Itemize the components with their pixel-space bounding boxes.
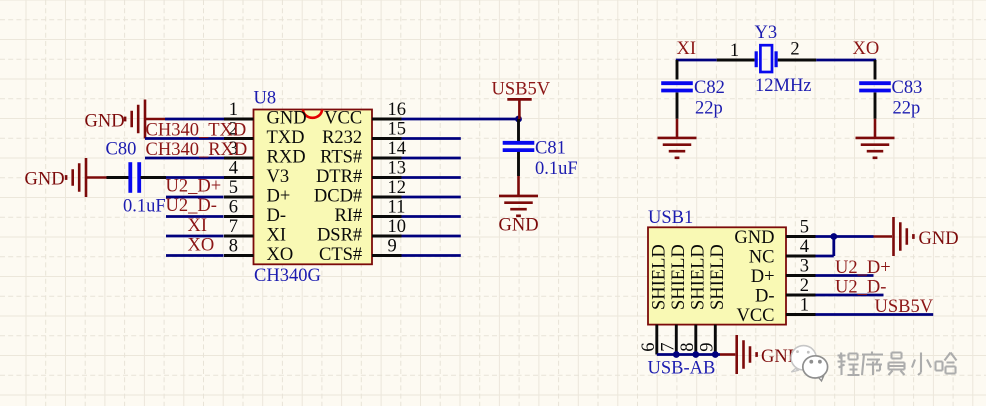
svg-text:DCD#: DCD# xyxy=(314,187,362,207)
svg-text:USB5V: USB5V xyxy=(875,297,934,317)
svg-text:CH340G: CH340G xyxy=(254,266,321,286)
svg-text:9: 9 xyxy=(388,237,397,257)
svg-text:USB5V: USB5V xyxy=(492,80,551,100)
svg-text:U2_D+: U2_D+ xyxy=(835,258,891,278)
svg-text:USB-AB: USB-AB xyxy=(648,359,716,379)
svg-text:U2_D-: U2_D- xyxy=(166,196,217,216)
svg-text:DSR#: DSR# xyxy=(317,226,362,246)
svg-text:XI: XI xyxy=(677,39,697,59)
svg-text:NC: NC xyxy=(749,248,775,268)
svg-text:3: 3 xyxy=(800,257,809,277)
svg-text:1: 1 xyxy=(229,100,238,120)
svg-text:XO: XO xyxy=(853,39,880,59)
svg-text:V3: V3 xyxy=(267,167,290,187)
svg-text:10: 10 xyxy=(388,217,407,237)
svg-text:D+: D+ xyxy=(751,267,775,287)
svg-text:XI: XI xyxy=(188,216,208,236)
svg-text:6: 6 xyxy=(639,343,659,352)
svg-text:C81: C81 xyxy=(535,139,566,159)
svg-text:U8: U8 xyxy=(254,88,277,108)
svg-text:XO: XO xyxy=(188,235,215,255)
svg-text:4: 4 xyxy=(229,159,238,179)
svg-text:Y3: Y3 xyxy=(755,23,778,43)
svg-text:RTS#: RTS# xyxy=(320,148,362,168)
svg-text:SHIELD: SHIELD xyxy=(689,244,709,310)
svg-text:DTR#: DTR# xyxy=(316,167,362,187)
svg-text:TXD: TXD xyxy=(267,128,305,148)
svg-text:CTS#: CTS# xyxy=(319,245,362,265)
svg-text:U2_D-: U2_D- xyxy=(835,277,886,297)
svg-text:5: 5 xyxy=(229,178,238,198)
svg-text:D-: D- xyxy=(755,287,775,307)
svg-text:22p: 22p xyxy=(893,99,921,119)
svg-text:XI: XI xyxy=(267,226,287,246)
svg-text:SHIELD: SHIELD xyxy=(708,244,728,310)
svg-text:U2_D+: U2_D+ xyxy=(166,176,222,196)
svg-text:8: 8 xyxy=(678,343,698,352)
svg-text:16: 16 xyxy=(388,100,407,120)
svg-text:7: 7 xyxy=(658,343,678,352)
svg-text:9: 9 xyxy=(697,343,717,352)
svg-text:SHIELD: SHIELD xyxy=(669,244,689,310)
svg-text:GND: GND xyxy=(85,112,125,132)
svg-text:GND: GND xyxy=(25,169,65,189)
svg-text:13: 13 xyxy=(388,159,407,179)
svg-text:4: 4 xyxy=(800,237,809,257)
svg-text:0.1uF: 0.1uF xyxy=(123,197,166,217)
svg-text:22p: 22p xyxy=(695,99,723,119)
svg-text:C83: C83 xyxy=(892,78,923,98)
svg-text:VCC: VCC xyxy=(736,306,774,326)
svg-text:C82: C82 xyxy=(694,78,725,98)
svg-text:RXD: RXD xyxy=(267,148,306,168)
svg-text:GND: GND xyxy=(734,228,774,248)
svg-text:RI#: RI# xyxy=(334,206,362,226)
svg-text:CH340_TXD: CH340_TXD xyxy=(146,120,247,140)
svg-text:12: 12 xyxy=(388,178,407,198)
svg-text:XO: XO xyxy=(267,245,294,265)
svg-text:D-: D- xyxy=(267,206,287,226)
svg-text:C80: C80 xyxy=(106,139,137,159)
svg-text:14: 14 xyxy=(388,139,407,159)
svg-text:2: 2 xyxy=(800,276,809,296)
svg-text:VCC: VCC xyxy=(324,109,362,129)
svg-text:15: 15 xyxy=(388,120,407,140)
svg-text:GND: GND xyxy=(919,229,959,249)
svg-text:D+: D+ xyxy=(267,187,291,207)
svg-text:11: 11 xyxy=(388,198,406,218)
svg-text:6: 6 xyxy=(229,198,238,218)
svg-text:2: 2 xyxy=(790,40,799,60)
svg-text:12MHz: 12MHz xyxy=(755,76,812,96)
svg-text:GND: GND xyxy=(267,109,307,129)
svg-text:8: 8 xyxy=(229,237,238,257)
svg-text:GND: GND xyxy=(499,216,539,236)
svg-text:R232: R232 xyxy=(322,128,362,148)
svg-text:5: 5 xyxy=(800,218,809,238)
svg-text:USB1: USB1 xyxy=(648,208,693,228)
svg-text:SHIELD: SHIELD xyxy=(650,244,670,310)
svg-text:0.1uF: 0.1uF xyxy=(535,159,578,179)
svg-text:7: 7 xyxy=(229,217,238,237)
svg-text:CH340_RXD: CH340_RXD xyxy=(146,140,248,160)
svg-text:1: 1 xyxy=(730,41,739,61)
svg-text:1: 1 xyxy=(800,296,809,316)
